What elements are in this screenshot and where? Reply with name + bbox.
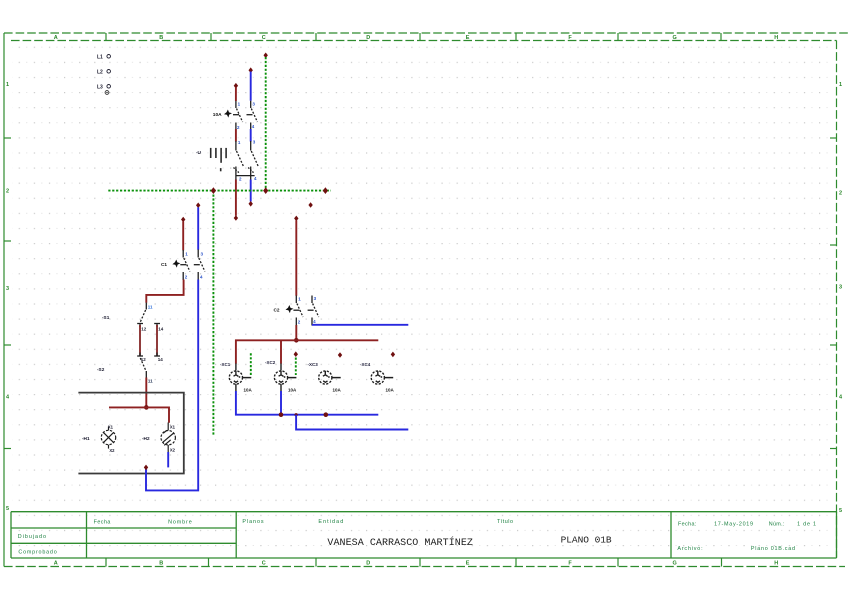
svg-text:-XC4: -XC4 — [360, 362, 371, 367]
svg-text:10A: 10A — [244, 388, 253, 393]
node XC4 terminal — [391, 352, 395, 358]
wire C2 neutral out — [312, 324, 408, 326]
svg-text:H: H — [774, 35, 778, 41]
wire socket neutral bus — [236, 391, 378, 415]
svg-text:-H2: -H2 — [142, 436, 150, 441]
svg-text:H: H — [774, 560, 778, 566]
svg-text:D: D — [366, 35, 370, 41]
svg-text:14: 14 — [158, 357, 164, 362]
svg-text:10A: 10A — [288, 388, 297, 393]
svg-text:5: 5 — [839, 508, 842, 514]
title block — [11, 512, 837, 558]
junction lamps — [144, 405, 149, 410]
svg-text:10A: 10A — [386, 388, 395, 393]
svg-text:PLANO 01B: PLANO 01B — [561, 534, 612, 545]
svg-text:VANESA CARRASCO MARTÍNEZ: VANESA CARRASCO MARTÍNEZ — [327, 535, 473, 549]
node C — [323, 187, 328, 194]
wire breaker to switch L — [235, 129, 237, 142]
svg-text:10A: 10A — [333, 388, 342, 393]
svg-text:-H1: -H1 — [82, 436, 90, 441]
node XC2 terminal — [294, 351, 298, 357]
svg-text:-S1: -S1 — [102, 315, 110, 320]
socket XC2 — [274, 363, 296, 391]
wire feed C1 phase — [181, 217, 185, 251]
wire breaker to switch N — [250, 129, 252, 142]
supply terminal N — [105, 91, 109, 95]
svg-text:Planos: Planos — [242, 519, 263, 525]
node marker — [308, 202, 312, 208]
link wire green vertical lower — [212, 191, 214, 435]
svg-text:D: D — [366, 560, 370, 566]
svg-text:X2: X2 — [170, 448, 176, 453]
svg-text:10A: 10A — [213, 112, 222, 118]
svg-text:Entidad: Entidad — [318, 519, 343, 525]
supply terminal L3 — [97, 85, 110, 91]
circuit breaker C2 — [286, 296, 319, 326]
link wire green vertical upper — [264, 53, 268, 191]
lamp H2 — [161, 423, 175, 453]
svg-text:C1: C1 — [161, 262, 167, 267]
svg-text:G: G — [673, 560, 677, 566]
node XC3 terminal — [338, 352, 342, 358]
svg-text:B: B — [159, 35, 163, 41]
svg-text:12: 12 — [141, 357, 147, 362]
svg-text:Título: Título — [497, 519, 513, 525]
svg-text:14: 14 — [158, 326, 164, 331]
wire C1 neutral return — [146, 280, 198, 491]
node neutral end — [144, 465, 148, 471]
svg-text:E: E — [466, 560, 470, 566]
svg-text:12: 12 — [141, 326, 147, 331]
wire socket phase bus — [236, 340, 378, 363]
svg-text:Núm.:: Núm.: — [769, 522, 785, 528]
wire switch output L — [234, 180, 238, 221]
wire XC2 neutral — [280, 391, 282, 415]
enclosure box — [78, 393, 183, 474]
wire neutral bus lower — [296, 415, 408, 430]
node B — [263, 187, 268, 194]
link wire green stub XC1 — [250, 353, 252, 375]
svg-text:Comprobado: Comprobado — [18, 549, 56, 555]
svg-text:L2: L2 — [97, 70, 103, 76]
node A — [211, 187, 216, 194]
circuit breaker C2 feed — [294, 216, 298, 296]
svg-text:Dibujado: Dibujado — [18, 534, 46, 540]
svg-text:A: A — [54, 560, 58, 566]
junction bus mid — [324, 412, 329, 417]
junction XC2 neutral — [279, 412, 284, 417]
switch S2 — [137, 353, 160, 379]
svg-text:Fecha: Fecha — [94, 520, 111, 526]
wire C2 to socket bus — [295, 325, 297, 340]
wire N feed to breaker — [249, 67, 253, 100]
svg-text:G: G — [673, 35, 677, 41]
svg-text:1 de 1: 1 de 1 — [797, 522, 816, 528]
svg-text:1: 1 — [6, 82, 9, 88]
svg-text:A: A — [54, 35, 58, 41]
svg-text:X1: X1 — [108, 425, 114, 430]
junction bus branch — [295, 413, 298, 416]
svg-text:C2: C2 — [274, 308, 280, 313]
main switch U — [211, 141, 258, 180]
socket XC3 — [319, 371, 341, 384]
svg-text:3: 3 — [6, 286, 9, 292]
svg-text:-U: -U — [196, 150, 202, 155]
wire H2 neutral stub — [167, 452, 169, 467]
svg-text:X2: X2 — [109, 448, 115, 453]
link wire green horizontal — [108, 190, 331, 192]
wire lamp bus — [109, 407, 169, 422]
circuit breaker C1 — [172, 250, 205, 281]
wire S2 to lamps — [145, 378, 147, 408]
svg-text:E: E — [466, 35, 470, 41]
svg-text:L3: L3 — [97, 85, 103, 91]
circuit breaker 10A — [224, 101, 257, 130]
svg-text:11: 11 — [148, 378, 153, 383]
svg-text:X1: X1 — [170, 424, 176, 429]
socket XC1 — [229, 363, 251, 391]
wire L phase feed to breaker — [234, 83, 238, 101]
title block labels — [18, 519, 816, 556]
svg-text:11: 11 — [148, 305, 153, 310]
svg-text:B: B — [159, 560, 163, 566]
svg-text:2: 2 — [6, 189, 9, 195]
supply terminal L2 — [97, 70, 110, 76]
svg-text:Archivo:: Archivo: — [677, 546, 702, 552]
svg-text:17-May-2019: 17-May-2019 — [714, 522, 753, 528]
supply terminal L1 — [97, 55, 110, 61]
socket XC4 — [371, 371, 393, 384]
wire drop XC2 — [280, 340, 282, 363]
svg-text:-S2: -S2 — [97, 367, 105, 372]
svg-text:L1: L1 — [97, 55, 103, 61]
svg-text:Fecha:: Fecha: — [678, 522, 696, 528]
svg-text:-XC2: -XC2 — [265, 360, 276, 365]
svg-text:5: 5 — [6, 506, 9, 512]
traveler wires S1-S2 — [140, 325, 157, 356]
svg-text:-XC1: -XC1 — [220, 362, 231, 367]
svg-text:Plano 01B.cad: Plano 01B.cad — [751, 546, 795, 552]
wire feed C1 neutral — [196, 203, 200, 250]
switch S1 — [137, 303, 160, 327]
svg-text:3: 3 — [839, 285, 842, 291]
svg-text:2: 2 — [839, 191, 842, 197]
junction C2 bus — [294, 338, 299, 343]
link wire green stub XC2 — [295, 358, 297, 376]
wire switch output N — [249, 180, 253, 207]
svg-text:1: 1 — [839, 82, 842, 88]
wire C1 to S1 — [146, 280, 183, 303]
svg-text:C: C — [262, 560, 266, 566]
svg-text:C: C — [262, 35, 266, 41]
svg-text:Nombre: Nombre — [168, 520, 192, 526]
svg-text:-XC3: -XC3 — [308, 362, 319, 367]
lamp H1 — [101, 427, 115, 449]
